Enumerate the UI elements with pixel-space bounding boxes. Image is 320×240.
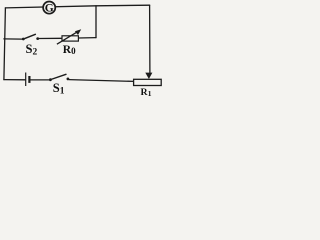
- wire bottom left to battery: [4, 79, 25, 81]
- wire middle-branch right vertical riser: [95, 6, 97, 38]
- wire left vertical: [4, 8, 6, 80]
- galvanometer G: [43, 2, 55, 15]
- svg-text:R0: R0: [63, 44, 76, 56]
- wire right vertical to R1 slider: [149, 5, 151, 73]
- switch S1: [49, 74, 69, 81]
- rheostat R0: [57, 29, 81, 44]
- wire battery to S1: [30, 79, 49, 81]
- wire S2 to R0: [39, 37, 62, 39]
- wire R0 to riser: [78, 37, 96, 39]
- wire middle branch left segment: [4, 38, 22, 40]
- svg-text:R1: R1: [141, 87, 152, 98]
- slide rheostat R1: [134, 73, 162, 86]
- svg-text:G: G: [45, 3, 54, 15]
- wire S1 to R1: [69, 80, 134, 82]
- switch S2: [22, 34, 39, 40]
- wire top horizontal: [5, 5, 149, 8]
- battery cell: [26, 73, 30, 87]
